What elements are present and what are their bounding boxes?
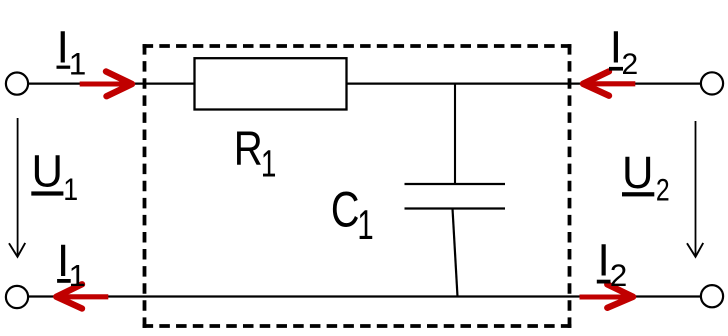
label U1	[31, 146, 78, 208]
svg-text:I: I	[597, 235, 610, 286]
label I1 top	[56, 21, 86, 81]
svg-text:2: 2	[621, 48, 638, 81]
wire capacitor top lead	[454, 84, 456, 184]
capacitor C1	[405, 184, 506, 209]
voltage arrow U2 (down)	[687, 121, 703, 257]
terminal bottom-right	[701, 285, 723, 307]
svg-text:1: 1	[261, 143, 277, 185]
svg-text:2: 2	[610, 257, 628, 293]
label C1	[331, 181, 374, 248]
arrow I1 top (red, right)	[80, 72, 132, 97]
svg-text:U: U	[32, 146, 64, 197]
svg-text:1: 1	[357, 201, 373, 248]
label U2	[622, 147, 670, 208]
label I2 top	[609, 22, 638, 82]
svg-text:I: I	[56, 21, 69, 72]
svg-text:I: I	[57, 235, 70, 286]
wire top-left segment	[28, 82, 195, 84]
svg-text:U: U	[622, 147, 654, 198]
voltage arrow U1 (down)	[9, 118, 25, 257]
label I2 bottom	[597, 235, 627, 293]
terminal top-right	[701, 72, 723, 94]
svg-text:2: 2	[656, 172, 670, 208]
arrow I2 top (red, left)	[583, 71, 635, 95]
wire bottom	[28, 295, 702, 297]
terminal top-left	[6, 73, 28, 95]
wire top-right segment	[347, 82, 702, 84]
label R1	[234, 123, 277, 186]
svg-text:1: 1	[69, 46, 87, 82]
arrow I2 bottom (red, right)	[580, 284, 634, 307]
svg-text:1: 1	[63, 171, 78, 207]
wire capacitor bottom lead	[453, 209, 458, 297]
label I1 bottom	[57, 235, 86, 293]
resistor R1	[195, 58, 347, 109]
svg-text:C: C	[331, 181, 360, 237]
arrow I1 bottom (red, left)	[56, 284, 108, 308]
dashed two-port box	[143, 44, 572, 328]
svg-text:1: 1	[69, 258, 86, 293]
svg-text:R: R	[234, 123, 263, 176]
terminal bottom-left	[6, 286, 28, 308]
svg-text:I: I	[610, 22, 623, 73]
